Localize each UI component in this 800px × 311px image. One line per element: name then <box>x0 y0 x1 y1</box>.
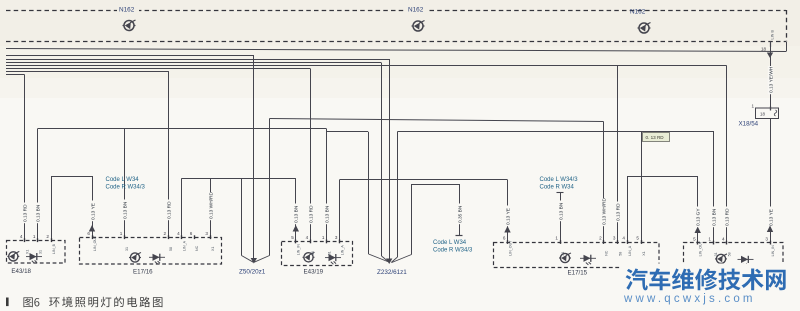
bus wire L8 <box>6 74 25 76</box>
svg-text:4: 4 <box>622 236 625 241</box>
svg-text:0.13 BN: 0.13 BN <box>35 204 41 222</box>
lamp symbol in E43/18 <box>7 251 19 261</box>
svg-text:E17/16: E17/16 <box>133 269 153 276</box>
svg-text:NC: NC <box>195 245 199 251</box>
direction arrow on LIN wire at right lamp unit <box>767 226 773 233</box>
bus wire L4 <box>6 62 381 64</box>
LED diode in E43/19 <box>325 254 341 264</box>
svg-text:3: 3 <box>335 235 338 240</box>
svg-text:X18/54: X18/54 <box>739 121 759 128</box>
svg-text:Code R W34/3: Code R W34/3 <box>433 248 473 254</box>
svg-text:X1: X1 <box>642 251 646 255</box>
E17/16 pin 3 <box>205 231 214 251</box>
svg-text:4: 4 <box>306 235 309 240</box>
junction arrow at bus L1 and N162 pin 18 wire <box>767 53 773 59</box>
svg-text:0.13 RD: 0.13 RD <box>308 205 314 223</box>
boxed wire code 0.13 RD <box>643 133 670 142</box>
svg-text:1: 1 <box>708 236 711 241</box>
svg-text:58: 58 <box>618 252 622 256</box>
E43/19 pin 3 <box>335 235 344 255</box>
svg-text:0.13 RD: 0.13 RD <box>166 201 172 219</box>
wire from X18/54 down to right lamp unit pin 3 <box>770 119 772 243</box>
svg-text:1: 1 <box>33 234 36 239</box>
svg-text:0.13 RD: 0.13 RD <box>22 204 28 222</box>
caption bar <box>6 298 9 307</box>
wire label 0.35 BN <box>457 204 464 225</box>
watermark 汽车维修技术网 <box>626 268 786 290</box>
label E43/18 <box>11 268 31 275</box>
splice Z50/20z1 arrow <box>251 258 257 264</box>
svg-text:0.13 BN: 0.13 BN <box>293 205 299 223</box>
right unit pin 5 <box>693 236 702 256</box>
svg-text:0.13 BN: 0.13 BN <box>711 208 717 226</box>
label X18/54 <box>739 121 759 128</box>
wire label 0.13 BN (E43/19) <box>324 204 331 225</box>
svg-text:0.13 RD: 0.13 RD <box>615 203 621 221</box>
open wire end crossbar <box>456 235 463 237</box>
svg-text:LIN B: LIN B <box>771 30 775 40</box>
lamp unit E17/15 dashed box <box>494 243 660 268</box>
lamp symbol in E17/16 <box>129 252 141 262</box>
wire label 0.13 BN (E43/18) <box>35 203 42 224</box>
svg-text:LIN_B: LIN_B <box>52 243 56 254</box>
wire label 0.13 BN (right unit) <box>711 207 718 228</box>
svg-text:LIN_A: LIN_A <box>340 245 344 256</box>
svg-text:www.qcwxjs.com: www.qcwxjs.com <box>623 293 756 305</box>
svg-text:Code R W34: Code R W34 <box>540 185 575 191</box>
splice Z232/61z1 arrow <box>386 259 392 265</box>
svg-text:31: 31 <box>561 252 565 256</box>
bus wire L5 <box>6 65 727 67</box>
svg-text:3: 3 <box>765 236 768 241</box>
wire label 0.13 YE (right) <box>768 207 775 228</box>
svg-text:5: 5 <box>636 236 639 241</box>
svg-text:Code L W34: Code L W34 <box>106 177 140 183</box>
label Z232/61z1 <box>377 269 407 276</box>
E17/15 pin 3 <box>613 236 622 256</box>
wire label 0.13 RD (E17/15) <box>615 202 622 223</box>
label N162 (middle) <box>406 5 428 14</box>
LED diode in E17/16 <box>149 254 165 264</box>
right unit pin 4 <box>722 236 731 256</box>
E17/16 pin 2 <box>164 231 173 251</box>
wire label 0.13 WH/RD (E17/15) <box>601 198 608 227</box>
svg-text:18: 18 <box>760 112 765 117</box>
svg-text:LIN_IN: LIN_IN <box>771 245 775 257</box>
E17/16 pin 6 unused <box>190 231 199 251</box>
svg-text:N162: N162 <box>630 9 646 16</box>
E17/16 pin 1 <box>120 231 129 251</box>
svg-text:6: 6 <box>190 231 193 236</box>
svg-text:2: 2 <box>46 234 49 239</box>
E17/16 pin 4 <box>177 231 186 251</box>
svg-text:Code L W34/3: Code L W34/3 <box>540 177 579 183</box>
svg-text:0.13 BN: 0.13 BN <box>122 201 128 219</box>
svg-text:X1: X1 <box>211 247 215 251</box>
LIN wire E43/19 to E17/15 <box>340 180 508 243</box>
svg-text:4: 4 <box>722 236 725 241</box>
label Z50/20z1 <box>239 269 266 276</box>
Z232 splice wire 2 <box>382 63 389 263</box>
svg-text:6: 6 <box>503 236 506 241</box>
svg-text:Z50/20z1: Z50/20z1 <box>239 269 266 276</box>
label N162 (right) <box>630 9 646 16</box>
svg-text:1: 1 <box>322 235 325 240</box>
caption title <box>49 297 162 308</box>
wire label 0.13 RD (E43/19) <box>308 204 315 225</box>
label E43/19 <box>304 269 324 276</box>
pin label 18 inside X18/54 <box>760 112 765 117</box>
wire Z232 wire5 to open end 0.35 BN <box>392 184 460 263</box>
pin name LIN B inside N162 <box>771 30 775 40</box>
svg-text:3: 3 <box>205 231 208 236</box>
Z232 splice wire 3 <box>389 59 391 262</box>
svg-text:5: 5 <box>291 235 294 240</box>
control unit N162 dashed box bottom edge <box>6 41 786 43</box>
E17/15 pin 1 <box>555 236 564 256</box>
svg-text:N162: N162 <box>119 7 135 14</box>
svg-text:0.13 WH/RD: 0.13 WH/RD <box>208 192 214 219</box>
watermark www.qcwxjs.com <box>623 293 756 305</box>
svg-text:LIN_IN: LIN_IN <box>297 244 301 256</box>
bridge wire from Z50 to E17/15 pin 2 <box>270 119 604 122</box>
lamp symbol in right lamp unit <box>715 254 727 264</box>
bus wire L6 <box>6 68 310 70</box>
svg-text:N162: N162 <box>408 7 424 14</box>
LIN arrow at E17/15 pin 6 <box>504 226 510 233</box>
wire Z232 wire4 from bridge y131 <box>391 132 397 263</box>
wire label 0.13 BN (E17/16) <box>122 200 129 221</box>
svg-text:31: 31 <box>125 247 129 251</box>
svg-text:2: 2 <box>164 231 167 236</box>
svg-text:NC: NC <box>605 250 609 256</box>
svg-text:0.35 BN: 0.35 BN <box>457 205 463 223</box>
wire label 0.13 BN (E17/15 pin1) <box>558 201 565 222</box>
pin 18 of N162 <box>761 42 771 52</box>
bridge wire y131 from Z232 wire4 to right unit pin 1 <box>398 131 714 133</box>
svg-text:58: 58 <box>169 247 173 251</box>
lamp symbol in E17/15 <box>559 253 571 263</box>
wire E17/15 pin 3 <box>617 66 619 243</box>
wire E43/18 pin 1 <box>37 129 39 241</box>
svg-text:0.13 RD: 0.13 RD <box>724 208 730 226</box>
code note above E17/16 <box>106 177 146 191</box>
svg-text:LIN_A: LIN_A <box>183 240 187 251</box>
svg-text:0.13 YE: 0.13 YE <box>768 209 774 226</box>
lamp symbol inside N162 (right) <box>638 23 651 34</box>
svg-text:31: 31 <box>38 250 42 254</box>
svg-text:1: 1 <box>555 236 558 241</box>
svg-text:Code R W34/3: Code R W34/3 <box>106 185 146 191</box>
LIN wire E43/18 pin2 to E17/16 pin6 <box>51 176 93 241</box>
svg-text:0. 13 RD: 0. 13 RD <box>646 135 665 140</box>
svg-text:1: 1 <box>752 104 755 109</box>
bus wire L3 <box>6 59 389 61</box>
lamp unit E43/18 dashed box <box>7 241 66 264</box>
wire from N162 pin 18 down to connector X18/54 <box>770 47 772 108</box>
wire label 0.13 RD (right unit) <box>724 207 731 228</box>
svg-text:0.13 BN: 0.13 BN <box>558 202 564 220</box>
lamp symbol inside N162 (middle) <box>412 21 425 32</box>
svg-text:E43/18: E43/18 <box>11 268 31 275</box>
bus wire L7 <box>6 71 169 73</box>
caption 图6 <box>23 297 39 307</box>
svg-text:18: 18 <box>761 47 767 52</box>
wire drop to E43/19 pin 4 <box>310 69 312 242</box>
LIN wire E17/16 pin 4 to E43/19 pin 5 <box>182 178 296 241</box>
LIN arrow at E43/19 pin 5 <box>293 225 299 232</box>
ground bridge wire y129 <box>38 128 327 130</box>
E17/15 pin 5 <box>636 236 645 256</box>
svg-text:31: 31 <box>327 251 331 255</box>
E17/16 pin 6 <box>87 231 96 251</box>
bus wire L2 <box>6 55 253 57</box>
svg-text:1: 1 <box>120 231 123 236</box>
wire label 0.13 BN (E43/19 LIN) <box>293 204 300 225</box>
LIN arrow at E17/16 pin 6 <box>89 225 95 232</box>
wire right unit pin 4 <box>726 66 728 243</box>
svg-text:0.13 YE/WH: 0.13 YE/WH <box>768 66 774 93</box>
svg-text:0.13 YE: 0.13 YE <box>505 208 511 225</box>
right unit pin 1 <box>708 236 717 256</box>
svg-text:2: 2 <box>599 236 602 241</box>
control unit N162 dashed box top edge <box>6 10 786 12</box>
wire label 0.13 YE/WH <box>768 66 775 94</box>
svg-text:0.13 WH/RD: 0.13 WH/RD <box>601 198 607 225</box>
svg-text:LIN_OUT: LIN_OUT <box>699 240 703 256</box>
E17/15 pin 4 <box>622 236 631 256</box>
svg-text:4: 4 <box>20 234 23 239</box>
E43/19 pin 1 <box>322 235 331 255</box>
svg-text:31: 31 <box>714 252 718 256</box>
code note above E17/15 pin 1 <box>540 177 579 191</box>
E17/15 pin 2 <box>599 236 608 256</box>
wire drop to E17/16 pin 2 <box>168 72 170 238</box>
wire label 0.13 YE (E17/16) <box>90 201 97 222</box>
LED diode in E43/18 <box>26 253 42 263</box>
lamp symbol in E43/19 <box>303 252 315 262</box>
right lamp unit dashed box <box>684 243 784 269</box>
E43/18 pin 2 <box>46 234 55 254</box>
E43/18 pin 4 <box>20 234 29 254</box>
wire drop from bus L2 to Z50 splice <box>253 55 255 262</box>
svg-text:LIN_OUT: LIN_OUT <box>508 240 512 256</box>
lamp unit E17/16 dashed box <box>80 238 222 265</box>
wire E17/15 pin 2 <box>603 122 605 243</box>
right unit pin 3 <box>765 236 774 256</box>
svg-text:LIN_OUT: LIN_OUT <box>93 235 97 251</box>
wire label 0.13 RD (E43/18) <box>22 203 29 224</box>
E17/15 pin 6 <box>503 236 512 256</box>
svg-text:58: 58 <box>727 252 731 256</box>
svg-text:4: 4 <box>177 231 180 236</box>
wire E17/16 pin 1 <box>124 129 126 238</box>
control unit N162 dashed box right edge <box>786 10 788 42</box>
watermark background <box>620 264 796 305</box>
label N162 (left) <box>117 5 139 14</box>
wire label 0.13 WH/RD (E17/16) <box>208 192 215 221</box>
svg-text:LIN_A: LIN_A <box>628 245 632 256</box>
LED diode in right lamp unit <box>738 256 754 266</box>
LIN arrow at right unit pin 5 <box>695 227 701 234</box>
wire E17/16 pin 3 to Z50 splice <box>210 179 253 263</box>
wire label 0.13 RD (E17/16) <box>166 200 173 221</box>
svg-text:X1: X1 <box>25 250 29 254</box>
svg-text:0.13 BN: 0.13 BN <box>324 205 330 223</box>
svg-text:3: 3 <box>613 236 616 241</box>
stub wire with terminal above E17/15 pin1 <box>557 192 564 242</box>
wire label 0.13 GY (right unit) <box>695 207 702 228</box>
svg-text:6: 6 <box>87 231 90 236</box>
lamp symbol inside N162 (left) <box>123 20 136 31</box>
svg-text:E43/19: E43/19 <box>304 269 324 276</box>
svg-text:58: 58 <box>311 251 315 255</box>
code note left of E17/15 <box>433 240 473 254</box>
lamp unit E43/19 dashed box <box>282 242 353 266</box>
pin 1 marker of X18/54 <box>752 104 777 117</box>
wire right unit pin 1 <box>713 131 715 243</box>
wire E17/15 pin 5 <box>641 131 643 242</box>
bus wire L1 <box>6 42 787 52</box>
Z50 splice right wire <box>254 119 269 263</box>
E43/18 pin 1 <box>33 234 42 254</box>
wire E43/19 pin 1 <box>326 129 328 242</box>
svg-text:Z232/61z1: Z232/61z1 <box>377 269 407 276</box>
Z232 splice wire 1 <box>327 132 389 263</box>
wire label 0.13 YE (E17/15) <box>505 206 512 227</box>
wire drop to E43/18 pin 4 <box>24 75 26 241</box>
LED diode in E17/15 <box>580 255 596 265</box>
LIN wire E17/15 to right unit <box>627 176 698 243</box>
svg-text:Code L W34: Code L W34 <box>433 240 467 246</box>
connector X18/54 box <box>756 108 779 119</box>
svg-text:0.13 GY: 0.13 GY <box>695 208 701 226</box>
label E17/15 <box>568 270 588 277</box>
E43/19 pin 5 <box>291 235 300 255</box>
svg-text:E17/15: E17/15 <box>568 270 588 277</box>
E43/19 pin 4 <box>306 235 315 255</box>
svg-text:5: 5 <box>693 236 696 241</box>
svg-text:0.13 YE: 0.13 YE <box>90 203 96 220</box>
label E17/16 <box>133 269 153 276</box>
